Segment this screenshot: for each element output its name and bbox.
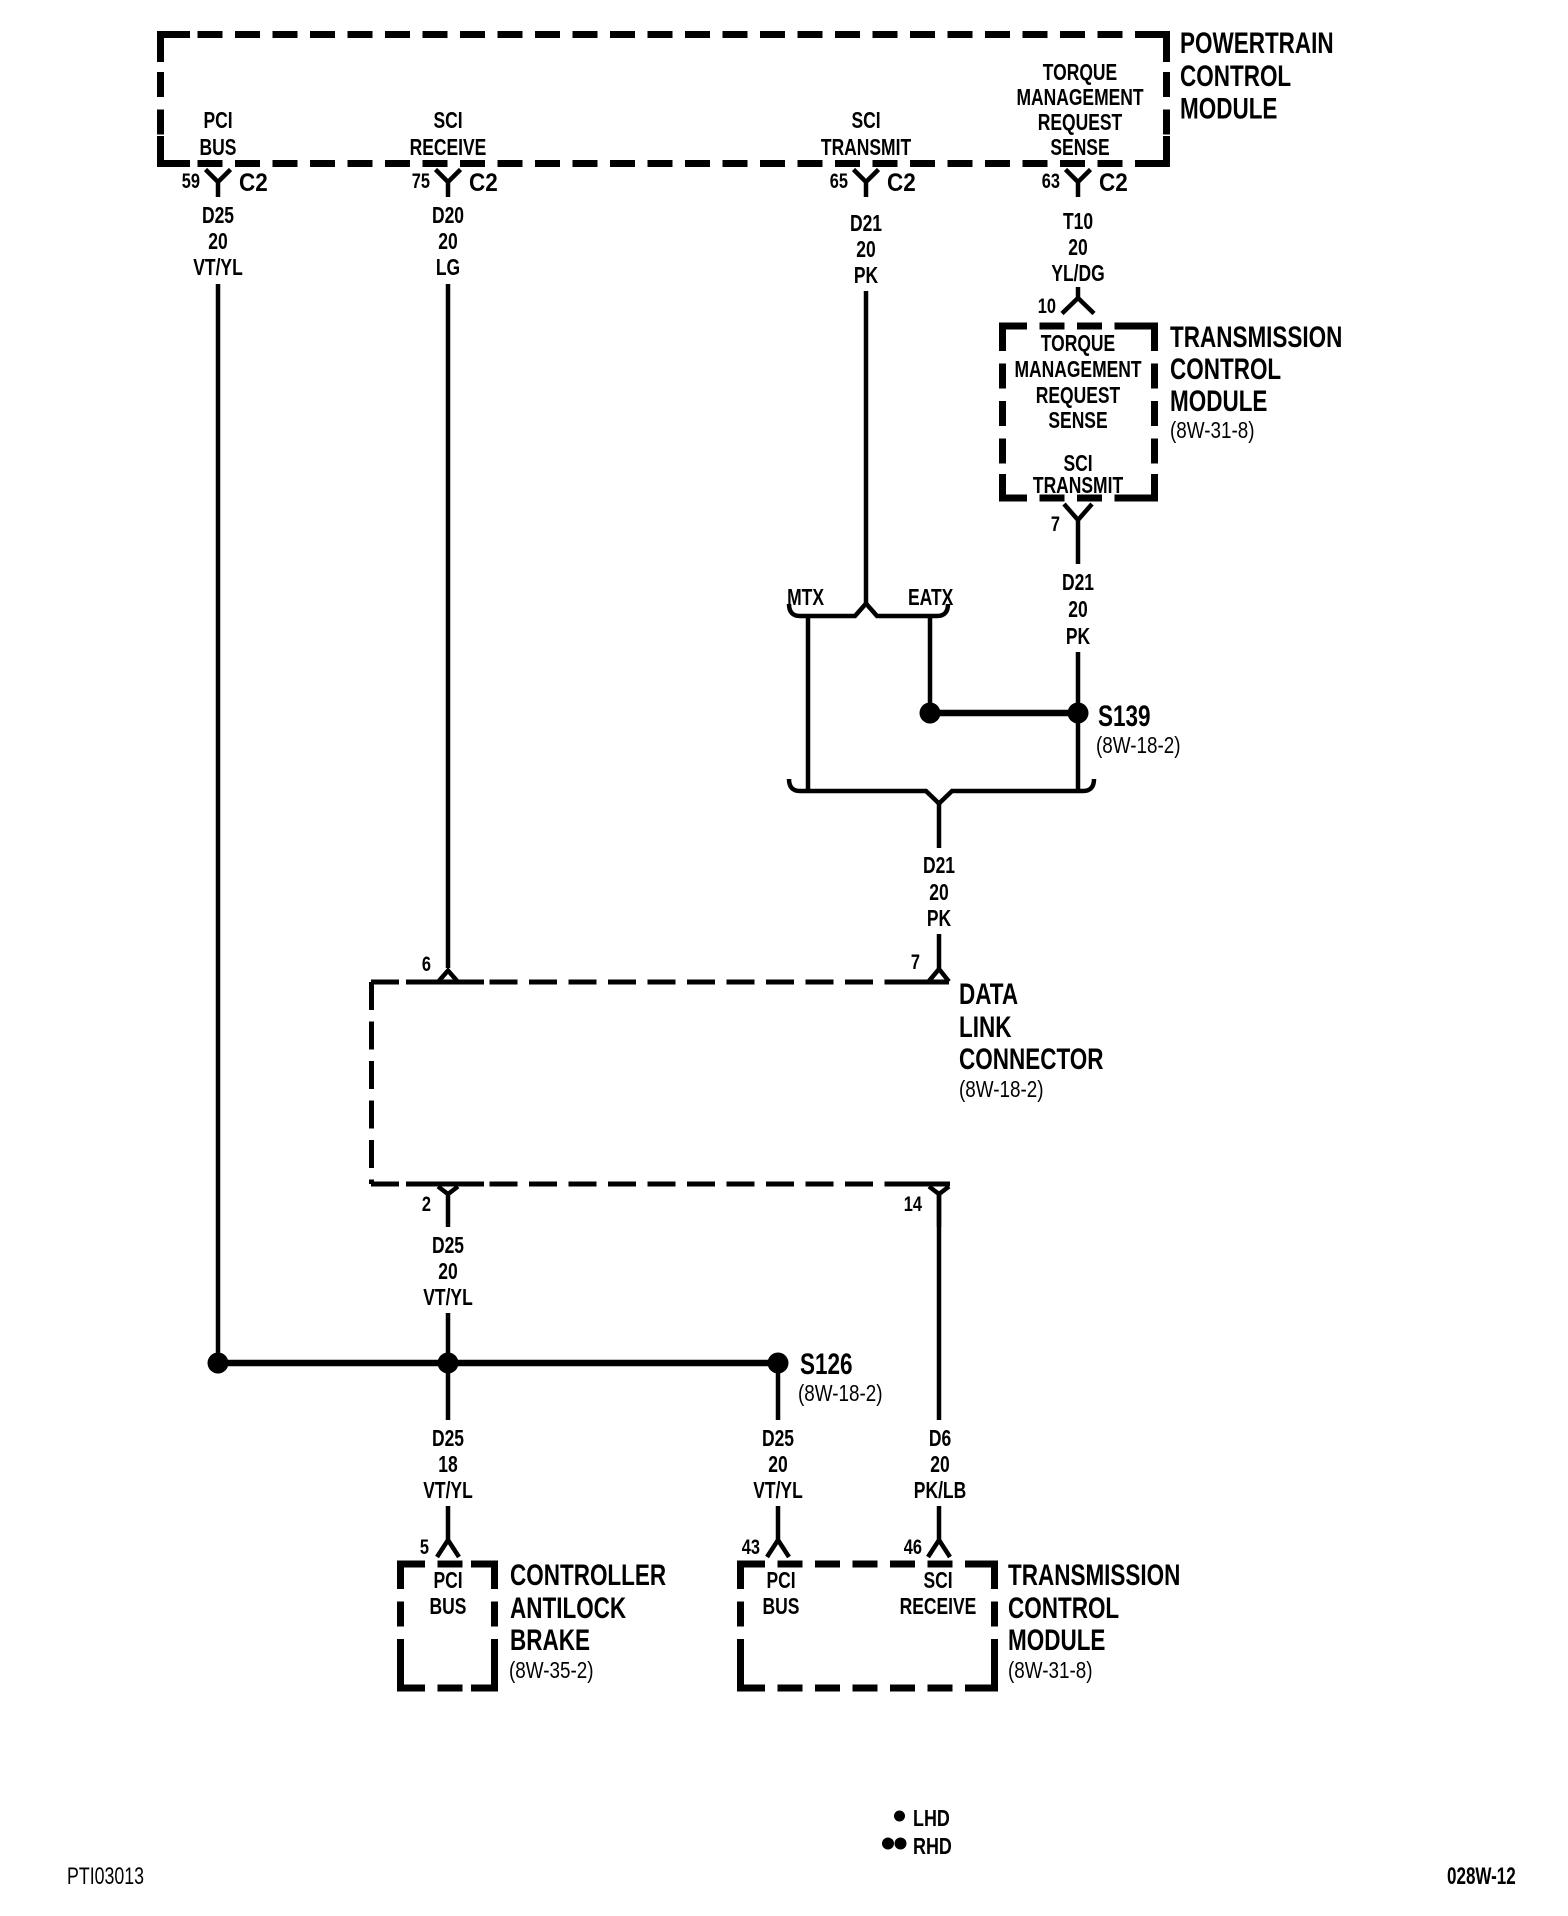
svg-text:(8W-35-2): (8W-35-2): [509, 1658, 593, 1683]
wire SCI RECEIVE vertical (pin 75 down to DLC pin 6): [446, 284, 451, 968]
svg-text:BUS: BUS: [763, 1595, 800, 1620]
svg-text:D21: D21: [850, 212, 882, 237]
svg-text:PCI: PCI: [203, 109, 232, 134]
svg-text:20: 20: [856, 238, 875, 263]
svg-text:VT/YL: VT/YL: [423, 1479, 472, 1504]
svg-text:20: 20: [930, 1453, 949, 1478]
svg-text:TRANSMISSION: TRANSMISSION: [1170, 320, 1342, 354]
svg-text:PK: PK: [1066, 625, 1090, 650]
svg-text:D21: D21: [1062, 571, 1094, 596]
svg-text:RECEIVE: RECEIVE: [410, 136, 487, 161]
svg-text:D25: D25: [432, 1427, 464, 1452]
svg-text:46: 46: [904, 1535, 922, 1558]
svg-text:D25: D25: [432, 1234, 464, 1259]
svg-text:LG: LG: [436, 256, 460, 281]
svg-text:CONNECTOR: CONNECTOR: [959, 1042, 1104, 1076]
svg-text:D6: D6: [929, 1427, 951, 1452]
svg-text:PCI: PCI: [433, 1569, 462, 1594]
svg-text:MODULE: MODULE: [1170, 384, 1267, 418]
wire label D25 18 VT/YL (to CAB): [423, 1427, 472, 1504]
svg-text:LINK: LINK: [959, 1010, 1011, 1044]
TCM pin 7: [1051, 504, 1092, 564]
svg-text:PTI03013: PTI03013: [67, 1864, 144, 1890]
wire S139 down to bottom brace: [1076, 723, 1081, 789]
svg-text:TORQUE: TORQUE: [1043, 61, 1117, 86]
svg-text:CONTROL: CONTROL: [1180, 59, 1291, 93]
svg-text:59: 59: [182, 169, 200, 192]
pin 75 C2: [412, 169, 498, 197]
pin 10 connector: [1038, 294, 1094, 317]
svg-text:MODULE: MODULE: [1180, 91, 1277, 125]
wire down to DLC pin 7: [937, 934, 942, 968]
svg-text:C2: C2: [239, 169, 268, 197]
svg-text:TORQUE: TORQUE: [1041, 332, 1115, 357]
DLC pin 7 connector: [911, 950, 949, 981]
svg-text:20: 20: [438, 1260, 457, 1285]
transmission control module (upper) box: [1002, 326, 1155, 498]
svg-text:(8W-18-2): (8W-18-2): [959, 1077, 1043, 1102]
pin 59 C2: [182, 169, 268, 197]
wire SCI TRANSMIT vertical (pin 65 down to MTX/EATX brace): [864, 291, 869, 606]
DLC pin 2: [422, 1187, 458, 1228]
wire DLC pin 14 down to TCM pin 46: [937, 1194, 942, 1420]
legend RHD: [882, 1834, 952, 1860]
svg-text:CONTROL: CONTROL: [1008, 1591, 1119, 1625]
powertrain control module box: [160, 35, 1167, 164]
svg-text:18: 18: [438, 1453, 457, 1478]
svg-text:(8W-31-8): (8W-31-8): [1170, 418, 1254, 443]
svg-text:TRANSMIT: TRANSMIT: [821, 136, 912, 161]
svg-text:PK: PK: [927, 907, 951, 932]
svg-text:REQUEST: REQUEST: [1038, 111, 1123, 136]
DLC pin 6 connector: [422, 952, 458, 982]
svg-text:20: 20: [768, 1453, 787, 1478]
svg-text:20: 20: [438, 230, 457, 255]
wire to TCM pin 43: [776, 1506, 781, 1541]
pin 65 C2: [830, 169, 916, 197]
svg-text:T10: T10: [1063, 210, 1093, 235]
svg-text:C2: C2: [887, 169, 916, 197]
svg-text:10: 10: [1038, 294, 1056, 317]
svg-text:S126: S126: [800, 1347, 853, 1381]
svg-text:PK/LB: PK/LB: [914, 1479, 966, 1504]
wire PCI BUS vertical (pin 59 down to S126): [216, 284, 221, 1363]
svg-text:C2: C2: [469, 169, 498, 197]
svg-text:43: 43: [742, 1535, 760, 1558]
TCM2 title: [1008, 1558, 1180, 1684]
wire to TCM pin 46: [937, 1506, 942, 1541]
svg-text:7: 7: [1051, 512, 1060, 535]
wire label D25 20 VT/YL (to TCM pin 43): [753, 1427, 802, 1504]
svg-text:6: 6: [422, 952, 431, 975]
svg-text:VT/YL: VT/YL: [423, 1286, 472, 1311]
svg-text:63: 63: [1042, 169, 1060, 192]
TCM2 sci receive label: [900, 1569, 977, 1620]
svg-text:PK: PK: [854, 264, 878, 289]
PCM title: [1180, 26, 1334, 125]
svg-text:POWERTRAIN: POWERTRAIN: [1180, 26, 1334, 60]
wire label D20 20 LG (pin 75): [432, 204, 464, 281]
svg-text:BUS: BUS: [430, 1595, 467, 1620]
TCM2 pci bus label: [763, 1569, 800, 1620]
svg-text:MANAGEMENT: MANAGEMENT: [1014, 358, 1142, 383]
CAB title: [509, 1558, 666, 1684]
svg-text:LHD: LHD: [913, 1806, 950, 1832]
wire label D25 20 VT/YL (DLC pin 2): [423, 1234, 472, 1311]
svg-text:DATA: DATA: [959, 977, 1018, 1011]
svg-text:VT/YL: VT/YL: [753, 1479, 802, 1504]
CAB pci bus label: [430, 1569, 467, 1620]
svg-text:D25: D25: [762, 1427, 794, 1452]
svg-text:S139: S139: [1098, 699, 1151, 733]
svg-text:VT/YL: VT/YL: [193, 256, 242, 281]
svg-text:20: 20: [208, 230, 227, 255]
svg-text:RHD: RHD: [913, 1834, 952, 1860]
svg-text:SENSE: SENSE: [1050, 136, 1109, 161]
svg-text:MANAGEMENT: MANAGEMENT: [1016, 86, 1144, 111]
svg-text:SCI: SCI: [433, 109, 462, 134]
TCM sci transmit label: [1033, 452, 1124, 499]
svg-text:75: 75: [412, 169, 430, 192]
svg-text:MODULE: MODULE: [1008, 1623, 1105, 1657]
svg-text:D20: D20: [432, 204, 464, 229]
wire label D6 20 PK/LB (to TCM pin 46): [914, 1427, 966, 1504]
svg-text:PCI: PCI: [766, 1569, 795, 1594]
svg-text:MTX: MTX: [787, 586, 824, 611]
wire to CAB pin 5: [446, 1506, 451, 1541]
svg-text:SENSE: SENSE: [1048, 409, 1107, 434]
svg-text:7: 7: [911, 950, 920, 973]
svg-text:BUS: BUS: [200, 136, 237, 161]
PCM pin label SCI RECEIVE: [410, 109, 487, 161]
wire brace down: [937, 803, 942, 848]
transmission control module (lower) box: [740, 1564, 995, 1688]
svg-text:65: 65: [830, 169, 848, 192]
svg-text:2: 2: [422, 1192, 431, 1215]
svg-text:TRANSMISSION: TRANSMISSION: [1008, 1558, 1180, 1592]
pin 63 C2: [1042, 169, 1128, 197]
svg-text:20: 20: [1068, 236, 1087, 261]
svg-text:(8W-18-2): (8W-18-2): [798, 1381, 882, 1406]
data link connector left edge: [369, 982, 374, 1184]
CAB pin 5 connector: [420, 1535, 459, 1558]
svg-text:D21: D21: [923, 854, 955, 879]
wire MTX branch: [806, 616, 811, 789]
wire TCM pin 7 down to S139: [1076, 652, 1081, 708]
wire pin 63 down to TCM pin 10: [1076, 287, 1081, 300]
PCM pin label PCI BUS: [200, 109, 237, 161]
controller antilock brake box: [400, 1564, 495, 1688]
wire S126 down (col H): [776, 1373, 781, 1420]
legend LHD: [894, 1806, 950, 1832]
wire label T10 20 YL/DG (pin 63): [1051, 210, 1104, 287]
svg-text:C2: C2: [1099, 169, 1128, 197]
svg-text:20: 20: [929, 881, 948, 906]
splice S139: [920, 699, 1181, 759]
svg-text:028W-12: 028W-12: [1447, 1863, 1516, 1890]
svg-text:20: 20: [1068, 598, 1087, 623]
svg-text:14: 14: [904, 1192, 923, 1215]
svg-text:5: 5: [420, 1535, 429, 1558]
svg-text:RECEIVE: RECEIVE: [900, 1595, 977, 1620]
wire label D21 20 PK (to DLC pin 7): [923, 854, 955, 932]
svg-text:YL/DG: YL/DG: [1051, 262, 1104, 287]
TCM torque management request sense label: [1014, 332, 1142, 434]
svg-text:(8W-31-8): (8W-31-8): [1008, 1658, 1092, 1683]
TCM pin 46 connector: [904, 1535, 950, 1558]
wire label D25 20 VT/YL (pin 59): [193, 204, 242, 281]
svg-text:D25: D25: [202, 204, 234, 229]
PCM pin label SCI TRANSMIT: [821, 109, 912, 161]
svg-text:REQUEST: REQUEST: [1036, 384, 1121, 409]
svg-text:TRANSMIT: TRANSMIT: [1033, 474, 1124, 499]
wire label D21 20 PK (pin 65): [850, 212, 882, 289]
TCM title: [1170, 320, 1342, 444]
DLC title: [959, 977, 1104, 1103]
svg-text:CONTROL: CONTROL: [1170, 352, 1281, 386]
svg-text:SCI: SCI: [923, 1569, 952, 1594]
wire DLC pin 2 down to S126: [446, 1313, 451, 1363]
svg-text:(8W-18-2): (8W-18-2): [1096, 733, 1180, 758]
bottom merge brace: [789, 779, 1094, 804]
PCM pin label TORQUE MANAGEMENT REQUEST SENSE: [1016, 61, 1144, 161]
wire EATX branch: [928, 616, 933, 708]
splice S126: [208, 1347, 883, 1407]
svg-text:BRAKE: BRAKE: [510, 1623, 590, 1657]
TCM pin 43 connector: [742, 1535, 789, 1558]
data link connector top edge: [371, 980, 949, 985]
MTX/EATX top brace: [789, 604, 948, 617]
DLC pin 14: [904, 1187, 949, 1228]
wire S126 down (col B): [446, 1373, 451, 1420]
svg-text:ANTILOCK: ANTILOCK: [510, 1591, 626, 1625]
wire label D21 20 PK (TCM pin 7): [1062, 571, 1094, 650]
svg-text:CONTROLLER: CONTROLLER: [510, 1558, 666, 1592]
svg-text:SCI: SCI: [851, 109, 880, 134]
data link connector bottom edge: [371, 1182, 950, 1187]
